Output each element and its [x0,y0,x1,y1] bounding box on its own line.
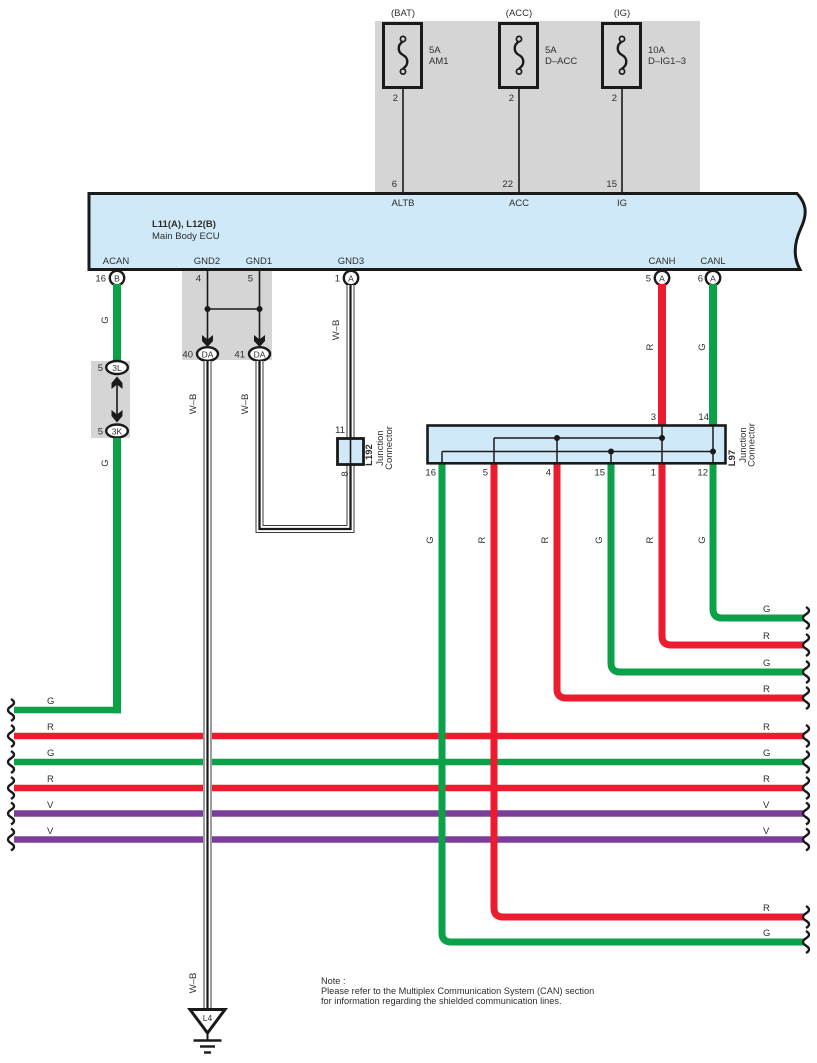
svg-text:ACC: ACC [509,198,529,209]
svg-text:G: G [47,696,54,707]
full width wire R [14,733,804,740]
svg-text:W–B: W–B [188,394,199,415]
junction dot right [257,306,263,312]
GND2/GND1 shading [182,271,272,360]
connector 3L [98,361,128,374]
L97 internal bus CANH [494,425,665,463]
svg-text:5: 5 [98,427,103,438]
3L/3K shading [91,361,130,438]
svg-text:R: R [47,722,54,733]
svg-text:5: 5 [248,274,253,285]
full width wire V [14,810,804,817]
svg-text:(IG): (IG) [614,8,630,19]
svg-text:ACAN: ACAN [103,256,130,267]
fuse D-IG1-3 (IG) [603,8,687,104]
svg-text:16: 16 [425,468,436,479]
fuse AM1 (BAT) [384,8,449,104]
svg-text:14: 14 [698,412,709,423]
wire pin15 green elbow [611,462,804,672]
svg-text:D–ACC: D–ACC [545,56,577,67]
label G left end [47,696,54,707]
pin 15 IG [606,179,617,190]
wire ACC fuse to ECU [518,73,520,192]
svg-text:1: 1 [651,468,656,479]
arrow into 40 DA [202,335,213,347]
label G [100,316,111,323]
svg-text:A: A [659,274,665,284]
wire ACAN green to 3L [113,284,121,361]
svg-text:CANH: CANH [649,256,676,267]
svg-text:2: 2 [509,93,514,104]
connector 3K [98,425,128,438]
break symbols left [8,699,14,851]
wire CANH red ECU to L97 [658,284,666,428]
svg-text:DA: DA [254,350,266,360]
break symbols right [803,607,809,953]
wire ACAN green elbow to left edge [14,438,121,713]
shielded wire GND2 to ground [204,361,211,1009]
svg-text:Main Body ECU: Main Body ECU [152,231,220,242]
svg-text:CANL: CANL [700,256,725,267]
svg-text:10A: 10A [648,45,666,56]
svg-text:R: R [477,536,488,543]
svg-text:(ACC): (ACC) [506,8,532,19]
svg-text:Note :: Note : [321,976,346,986]
arrow into 41 DA [254,335,265,347]
pin 22 ACC [502,179,513,190]
L97 internal bus CANL [442,425,716,463]
label W-B GND1 wire [240,394,251,415]
full width wire G [14,759,804,766]
svg-text:IG: IG [617,198,627,209]
full width wire V2 [14,836,804,843]
connector 40 DA [182,347,218,361]
svg-text:2: 2 [393,93,398,104]
junction connector L192 [335,425,395,477]
svg-text:G: G [100,459,111,466]
svg-text:2: 2 [612,93,617,104]
labels on L97 bottom wires [425,536,708,543]
svg-text:L11(A), L12(B): L11(A), L12(B) [152,219,216,230]
wire labels right edge [763,604,770,939]
svg-text:Please refer to the Multiplex: Please refer to the Multiplex Communicat… [321,986,594,996]
label W-B GND3 wire [331,320,342,341]
svg-text:5A: 5A [545,45,557,56]
svg-text:3: 3 [651,412,656,423]
svg-text:W–B: W–B [188,973,199,994]
svg-text:(BAT): (BAT) [391,8,415,19]
svg-text:R: R [763,684,770,695]
svg-text:A: A [710,274,716,284]
svg-text:4: 4 [196,274,201,285]
L97 name [727,423,758,467]
svg-text:R: R [47,774,54,785]
wire labels left edge [47,722,54,837]
wire pin4 red elbow [557,462,804,698]
wire CANH pin1 red elbow [662,462,804,645]
svg-text:L97: L97 [727,450,738,466]
svg-text:1: 1 [335,274,340,285]
connector 41 DA [234,347,270,361]
svg-text:12: 12 [697,468,708,479]
svg-text:11: 11 [335,425,345,436]
svg-text:R: R [763,903,770,914]
svg-text:DA: DA [202,350,214,360]
wire GND1 pin5 to DA [259,271,261,341]
svg-text:3L: 3L [112,363,122,373]
wire jumper between GND wires [208,308,260,310]
svg-text:5: 5 [98,363,103,374]
svg-text:V: V [763,826,770,837]
svg-text:22: 22 [502,179,513,190]
svg-text:R: R [763,722,770,733]
wire ALTB fuse to ECU [402,73,404,192]
svg-text:15: 15 [594,468,605,479]
wire CANL green ECU to L97 [709,284,717,428]
pin 1 A of ECU (GND3) [335,271,358,285]
svg-text:R: R [763,774,770,785]
fuse area shading [375,21,700,192]
note text [321,976,594,1006]
svg-text:R: R [763,631,770,642]
svg-text:B: B [114,274,120,284]
pin 4 of ECU (GND2) [196,274,201,285]
svg-text:L4: L4 [203,1013,213,1023]
svg-text:G: G [763,748,770,759]
svg-text:5A: 5A [429,45,441,56]
arrow pair between 3L and 3K [112,377,123,423]
label R CANH [645,343,656,350]
ECU U1 Main Body ECU box [89,194,805,270]
shielded wire GND1 U to L192 [256,361,354,533]
svg-text:G: G [100,316,111,323]
svg-text:W–B: W–B [240,394,251,415]
svg-text:15: 15 [606,179,617,190]
svg-text:6: 6 [698,274,703,285]
svg-text:4: 4 [546,468,551,479]
svg-text:5: 5 [483,468,488,479]
svg-text:V: V [47,800,54,811]
pin 6 A of ECU (CANL) [698,271,720,285]
label W-B GND2 wire [188,394,199,415]
svg-text:A: A [348,274,354,284]
svg-text:D–IG1–3: D–IG1–3 [648,56,686,67]
label G CANL [697,343,708,350]
label G below 3K [100,459,111,466]
svg-text:16: 16 [95,274,106,285]
svg-text:R: R [645,343,656,350]
full width wire R2 [14,785,804,792]
svg-text:R: R [645,536,656,543]
pin 5 A of ECU (CANH) [646,271,669,285]
svg-text:G: G [425,536,436,543]
svg-text:for information regarding the: for information regarding the shielded c… [321,996,562,1006]
pin 5 of ECU (GND1) [248,274,253,285]
svg-text:G: G [47,748,54,759]
pin 16 B of ECU (ACAN) [95,271,124,285]
pin 6 ALTB [392,179,397,190]
svg-text:GND2: GND2 [194,256,220,267]
junction connector L97 [425,412,725,479]
wire pin16 green long elbow [442,462,804,942]
svg-text:G: G [763,928,770,939]
svg-text:Connector: Connector [384,426,395,470]
svg-text:R: R [540,536,551,543]
svg-text:6: 6 [392,179,397,190]
svg-text:V: V [763,800,770,811]
svg-text:40: 40 [182,350,193,361]
svg-text:Connector: Connector [747,423,758,467]
svg-text:G: G [697,343,708,350]
wire pin5 red long elbow [494,462,804,917]
svg-text:ALTB: ALTB [391,198,414,209]
svg-text:41: 41 [234,350,245,361]
svg-text:L192: L192 [364,444,375,466]
shielded wire GND3 to L192 [347,285,354,438]
svg-text:W–B: W–B [331,320,342,341]
label W-B near ground [188,973,199,994]
svg-text:G: G [594,536,605,543]
svg-text:3K: 3K [112,427,123,437]
svg-text:5: 5 [646,274,651,285]
svg-text:GND3: GND3 [338,256,364,267]
wire IG fuse to ECU [621,73,623,192]
svg-text:G: G [763,604,770,615]
svg-text:G: G [763,658,770,669]
ground L4 [190,1010,225,1053]
wire GND2 pin4 to DA [207,271,209,341]
svg-text:V: V [47,826,54,837]
svg-text:G: G [697,536,708,543]
svg-text:AM1: AM1 [429,56,449,67]
wire CANL pin12 green elbow [713,462,804,618]
fuse D-ACC (ACC) [500,8,578,104]
svg-text:8: 8 [340,471,351,476]
svg-text:GND1: GND1 [246,256,272,267]
junction dot left [205,306,211,312]
